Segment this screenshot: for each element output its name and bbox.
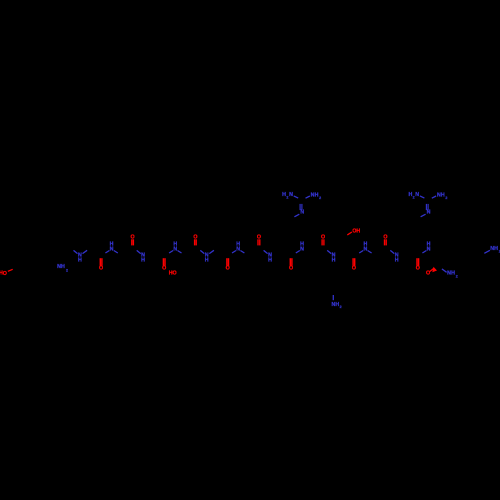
svg-text:H: H <box>441 192 445 198</box>
svg-text:N: N <box>289 192 293 198</box>
svg-text:H: H <box>61 264 65 270</box>
svg-text:2: 2 <box>319 196 321 200</box>
svg-text:H: H <box>173 242 177 248</box>
svg-text:O: O <box>3 271 7 277</box>
svg-text:H: H <box>427 242 431 248</box>
svg-text:H: H <box>110 242 114 248</box>
svg-text:O: O <box>173 270 177 276</box>
svg-text:O: O <box>162 265 166 271</box>
svg-text:O: O <box>416 265 420 271</box>
svg-text:O: O <box>99 265 103 271</box>
svg-text:H: H <box>315 192 319 198</box>
svg-text:H: H <box>494 246 498 252</box>
svg-text:O: O <box>426 271 430 277</box>
svg-text:H: H <box>268 258 272 264</box>
svg-text:H: H <box>236 242 240 248</box>
svg-text:H: H <box>451 271 455 277</box>
svg-text:2: 2 <box>456 274 458 278</box>
svg-text:N: N <box>415 192 419 198</box>
svg-text:O: O <box>289 265 293 271</box>
svg-text:O: O <box>226 265 230 271</box>
svg-text:H: H <box>363 242 367 248</box>
svg-text:N: N <box>427 210 431 216</box>
svg-text:2: 2 <box>66 268 68 272</box>
svg-text:O: O <box>352 265 356 271</box>
svg-text:2: 2 <box>340 305 342 309</box>
svg-text:H: H <box>300 242 304 248</box>
svg-text:H: H <box>78 258 82 264</box>
svg-text:H: H <box>205 258 209 264</box>
svg-text:N: N <box>300 210 304 216</box>
svg-text:H: H <box>356 228 360 234</box>
svg-text:2: 2 <box>445 196 447 200</box>
svg-text:H: H <box>332 258 336 264</box>
svg-text:H: H <box>141 258 145 264</box>
svg-text:H: H <box>395 258 399 264</box>
